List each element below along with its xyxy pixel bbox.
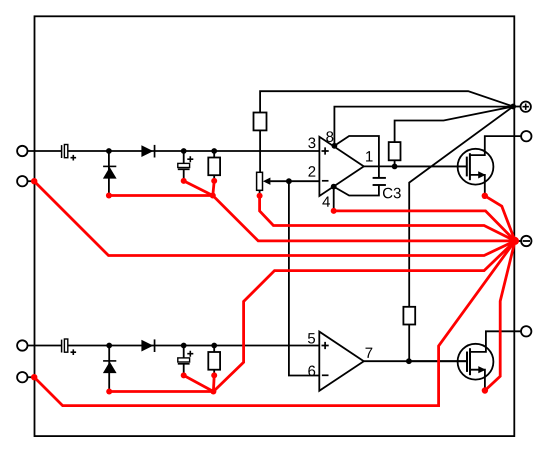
- wire top input rail main segment: [68, 150, 320, 152]
- op-amp U1A minus input mark: [322, 180, 329, 182]
- wire red Q2 source: [485, 241, 515, 391]
- op-amp U1A plus input mark: [322, 147, 329, 154]
- terminal V+ plus mark: [523, 104, 529, 110]
- capacitor C3 bypass: [373, 178, 386, 185]
- terminal Q2 drain out: [521, 326, 531, 336]
- wire L2 stub: [28, 180, 35, 182]
- capacitor C5 polarized bottom filter: [178, 351, 194, 364]
- label 4: [322, 196, 330, 206]
- wire D1 vertical branch: [108, 151, 110, 196]
- op-amp U1B triangle: [319, 332, 364, 391]
- wire C2 bottom lead: [183, 170, 185, 181]
- node R1 bottom red junction: [211, 178, 217, 184]
- terminal Vminus minus mark: [523, 240, 530, 242]
- RED-NET: [34, 181, 515, 406]
- label 7: [366, 348, 373, 358]
- node Vminus convergence: [511, 237, 519, 245]
- node D3 bottom red junction: [106, 389, 112, 395]
- wire red pin4 rail: [334, 211, 515, 241]
- wire red bottom clamp rail left: [109, 390, 213, 393]
- node pin 4: [331, 184, 337, 190]
- wire top input rail left segment: [28, 150, 62, 152]
- node top clamp red junction: [210, 193, 216, 199]
- wire Q1 drain to terminal: [470, 136, 521, 155]
- capacitor C2 polarized top filter: [178, 156, 194, 169]
- diode D3 bottom clamp: [103, 360, 117, 373]
- node V+ convergence: [510, 104, 516, 110]
- terminal L3: [17, 340, 27, 350]
- node C5 top junction: [181, 343, 187, 349]
- wire C2 top lead: [183, 151, 185, 163]
- op-amp U1A triangle: [319, 137, 363, 196]
- node bottom clamp red junction: [210, 389, 216, 395]
- node L4 red junction: [31, 374, 37, 380]
- wire pin 8 to V+ node: [334, 107, 513, 146]
- wire C3 loop bottom: [334, 185, 379, 196]
- op-amp U1B minus input mark: [322, 374, 329, 376]
- wire L4 stub: [28, 376, 35, 378]
- diode D2 top series: [141, 145, 155, 158]
- transistor Q2 MOSFET bottom: [409, 344, 494, 391]
- wire V+ long diagonal to R4: [409, 107, 513, 307]
- node D3 top junction: [106, 343, 112, 349]
- node pin4 red junction: [331, 208, 337, 214]
- wire red Q1 source: [485, 196, 515, 241]
- node pot bottom red junction: [257, 193, 263, 199]
- wire terminal V+ stub: [514, 106, 521, 108]
- wire bottom input rail left segment: [28, 345, 62, 347]
- wire R5 leads: [213, 346, 215, 376]
- potentiometer VR1 body: [257, 172, 263, 190]
- label 3: [308, 138, 315, 149]
- label C3: [383, 188, 401, 199]
- wire red C5 drop: [184, 375, 214, 391]
- wire red L4 bottom return rail: [34, 241, 515, 406]
- node pin 8: [332, 143, 338, 149]
- node wiper pin2 junction: [286, 178, 292, 184]
- node C2 top junction: [181, 148, 187, 154]
- capacitor C1 polarized top input: [62, 145, 77, 161]
- terminal V+: [521, 102, 531, 112]
- node D1 bottom red junction: [106, 193, 112, 199]
- wire V+ rail to divider: [260, 91, 513, 112]
- capacitor C4 polarized bottom input: [62, 339, 77, 355]
- wire R3 leads pull-up to V+: [395, 107, 513, 167]
- transistor Q1 MOSFET top: [395, 149, 494, 196]
- label 2: [308, 166, 315, 176]
- wire terminal Vminus stub: [517, 240, 522, 242]
- wire R1 leads: [213, 151, 215, 181]
- terminal Q1 drain out: [521, 131, 531, 141]
- wire pin 2 input: [289, 180, 320, 182]
- op-amp U1B plus input mark: [322, 342, 329, 349]
- wire red C2 drop: [184, 181, 213, 196]
- diode D4 bottom series: [141, 339, 155, 352]
- node op-amp2 output junction: [406, 358, 412, 364]
- wire pin2 node down to pin 6: [289, 181, 319, 375]
- label 6: [308, 366, 315, 377]
- label 8: [326, 131, 333, 142]
- wire red top clamp rail: [109, 196, 515, 241]
- resistor R1 top input: [208, 158, 220, 176]
- wire R4 bottom lead: [408, 325, 410, 362]
- resistor R3 pull-up: [389, 142, 401, 160]
- label 5: [308, 333, 315, 343]
- wire pot bottom lead: [259, 190, 261, 196]
- wire bottom input rail main segment: [68, 345, 319, 347]
- label 1: [366, 151, 372, 161]
- resistor R2 divider: [254, 113, 267, 131]
- node R5 bottom red junction: [211, 372, 217, 378]
- wire pot wiper to pin2 node: [270, 180, 289, 182]
- BLACK-WIRES: [28, 91, 522, 391]
- wire Q2 drain to terminal: [470, 331, 521, 352]
- wire D3 vertical branch: [108, 346, 110, 392]
- wire R2 to pot: [259, 130, 261, 172]
- wire op-amp1 output to Q1 gate: [364, 165, 467, 167]
- potentiometer VR1 wiper arrow: [263, 178, 271, 185]
- wire red bottom clamp rail to Vminus: [213, 241, 515, 392]
- terminal Vminus: [521, 236, 531, 246]
- node Q1 source red junction: [482, 193, 488, 199]
- wire C5 top lead: [183, 346, 185, 358]
- wire op-amp2 output to Q2 gate: [364, 360, 467, 362]
- resistor R5 bottom input: [208, 352, 220, 370]
- wire pin 4 down lead: [333, 187, 335, 211]
- node D1 top junction: [106, 148, 112, 154]
- wire red L2 rail: [34, 181, 515, 255]
- node C2 bottom red junction: [181, 178, 187, 184]
- wire C5 bottom lead: [183, 364, 185, 375]
- terminal L2: [17, 176, 27, 186]
- diode D1 top clamp: [103, 166, 117, 179]
- TERMINALS: [17, 102, 531, 383]
- LABELS: [308, 131, 401, 376]
- node op-amp1 output junction: [392, 164, 398, 170]
- wire red R5 drop: [212, 375, 216, 391]
- node C5 bottom red junction: [181, 372, 187, 378]
- wire C3 loop top: [334, 136, 379, 178]
- node L2 red junction: [31, 178, 37, 184]
- node R5 top junction: [211, 343, 217, 349]
- node Q2 source red junction: [482, 387, 488, 393]
- terminal L1: [17, 146, 27, 156]
- wire red pot bottom rail: [260, 196, 515, 241]
- wire red R1 drop: [213, 181, 214, 196]
- resistor R4 pull-up bottom: [403, 307, 415, 325]
- terminal L4: [17, 372, 27, 382]
- node R1 top junction: [211, 148, 217, 154]
